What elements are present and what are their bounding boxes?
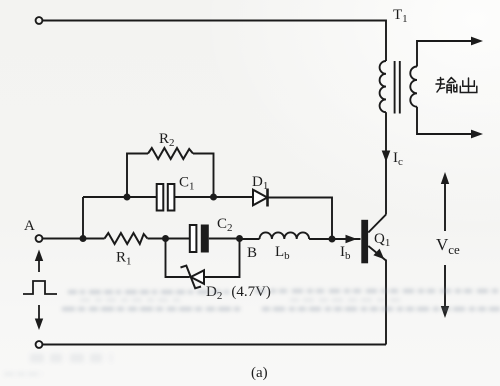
resistor R1 <box>105 233 148 244</box>
wire A to R1 <box>43 238 105 240</box>
wire C1 row right to D1 <box>175 196 254 198</box>
svg-text:A: A <box>24 218 35 234</box>
transformer T1 core <box>394 61 396 114</box>
arrowhead Vce down <box>441 306 449 318</box>
arrowhead emitter <box>373 249 384 260</box>
wire R1 to C2 <box>148 238 191 240</box>
wire D1 to base column <box>268 198 333 240</box>
arrowhead Ic current <box>382 151 391 163</box>
arrowhead input up <box>35 250 43 262</box>
faint bleed-through text band <box>4 291 500 374</box>
zener branch left drop <box>166 239 190 278</box>
wire bottom rail <box>43 344 386 346</box>
wire emitter drop <box>385 260 387 345</box>
diode D1 <box>253 189 268 207</box>
zener branch right riser <box>204 239 240 278</box>
junction node C1 row left <box>124 194 131 201</box>
node A input terminal <box>36 235 43 242</box>
Vce arrow up line <box>444 177 446 231</box>
arrowhead secondary bottom output <box>471 130 483 139</box>
wire Lb to base (Ib wire) <box>309 238 360 240</box>
transformer T1 primary winding <box>380 61 386 112</box>
junction node C1 row right <box>210 194 217 201</box>
junction node B <box>236 235 243 242</box>
arrowhead Ib current <box>346 235 358 244</box>
capacitor C1 <box>157 184 175 211</box>
wire C2 to node B <box>209 238 240 240</box>
transistor Q1 emitter lead <box>368 246 386 261</box>
junction node D1/base <box>329 236 336 243</box>
transistor Q1 base bar <box>361 220 368 263</box>
wire input down arrow stem <box>38 305 40 322</box>
transformer T1 secondary winding <box>410 67 417 107</box>
wire node to C1 row riser <box>82 197 84 239</box>
capacitor C2 (polarized) <box>190 225 197 252</box>
Vce arrow down line <box>444 265 446 312</box>
svg-text:B: B <box>247 245 257 261</box>
svg-text:(a): (a) <box>251 365 268 381</box>
arrowhead Vce up <box>441 172 449 184</box>
inductor Lb <box>240 238 260 240</box>
terminal bottom-left input <box>36 341 43 348</box>
wire top rail <box>43 21 386 62</box>
arrowhead secondary top output <box>471 37 483 46</box>
wire input up arrow stem <box>38 252 40 272</box>
zener diode D2 <box>181 266 205 289</box>
wire collector drop (Ic wire) <box>385 112 387 214</box>
wire secondary top lead <box>417 41 477 67</box>
resistor R2 loop <box>127 154 148 198</box>
transistor Q1 collector lead <box>368 215 386 233</box>
junction node R1/C2/zener <box>162 235 169 242</box>
arrowhead input down <box>35 319 43 331</box>
label 输出 (hand-drawn strokes) <box>436 78 477 93</box>
junction node on A wire <box>80 235 87 242</box>
wire C1 row left <box>83 196 157 198</box>
resistor R2 <box>148 148 193 159</box>
input pulse waveform <box>23 281 57 294</box>
terminal top-left input <box>36 17 43 24</box>
wire secondary bottom lead <box>417 107 477 134</box>
